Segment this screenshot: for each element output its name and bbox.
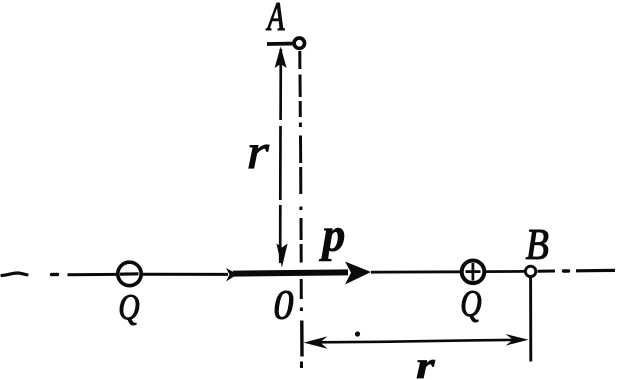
dimension tick left below O (300, 321, 304, 357)
vertical r arrowhead up (275, 47, 287, 69)
vertical r arrow shaft (279, 49, 282, 263)
wire axis left segment (68, 273, 117, 276)
wire axis segment right of arrow (371, 270, 460, 273)
charge -Q circle (118, 262, 141, 285)
horizontal r dimension line (318, 340, 515, 342)
charge +Q circle (462, 261, 485, 284)
label r lower (417, 360, 435, 378)
label r upper (249, 145, 269, 168)
wire axis right dot (564, 269, 569, 272)
vector p thick shaft (233, 272, 348, 273)
label O origin (275, 291, 293, 319)
wire axis left dot (52, 273, 58, 277)
node A circle (294, 38, 304, 48)
node B circle (525, 266, 535, 276)
wire axis right dash (576, 269, 615, 273)
vertical r arrowhead down (276, 244, 287, 268)
label B (526, 230, 548, 259)
dimension arrowhead left (304, 336, 328, 348)
small arrowhead on dipole axis (226, 268, 238, 282)
plus sign vertical bar (471, 263, 474, 281)
centre dash-dot line below axis (300, 279, 303, 368)
small dot above dimension line (355, 331, 360, 336)
wire axis left dash (2, 273, 27, 276)
plus sign horizontal bar (466, 270, 481, 273)
dimension arrowhead right (506, 334, 529, 346)
wire axis right segment (538, 270, 556, 273)
minus sign of charge -Q (120, 272, 139, 276)
tick line below B (529, 278, 532, 362)
label Q left (120, 295, 139, 325)
tick at point A (267, 42, 296, 46)
centre dash-dot line above axis (300, 51, 301, 263)
label p (dipole moment) (319, 228, 344, 261)
wire axis segment +Q to B (485, 270, 525, 273)
wire axis middle segment (143, 273, 228, 276)
vector p arrowhead (345, 262, 371, 285)
label Q right (462, 291, 481, 322)
label A (266, 3, 285, 30)
